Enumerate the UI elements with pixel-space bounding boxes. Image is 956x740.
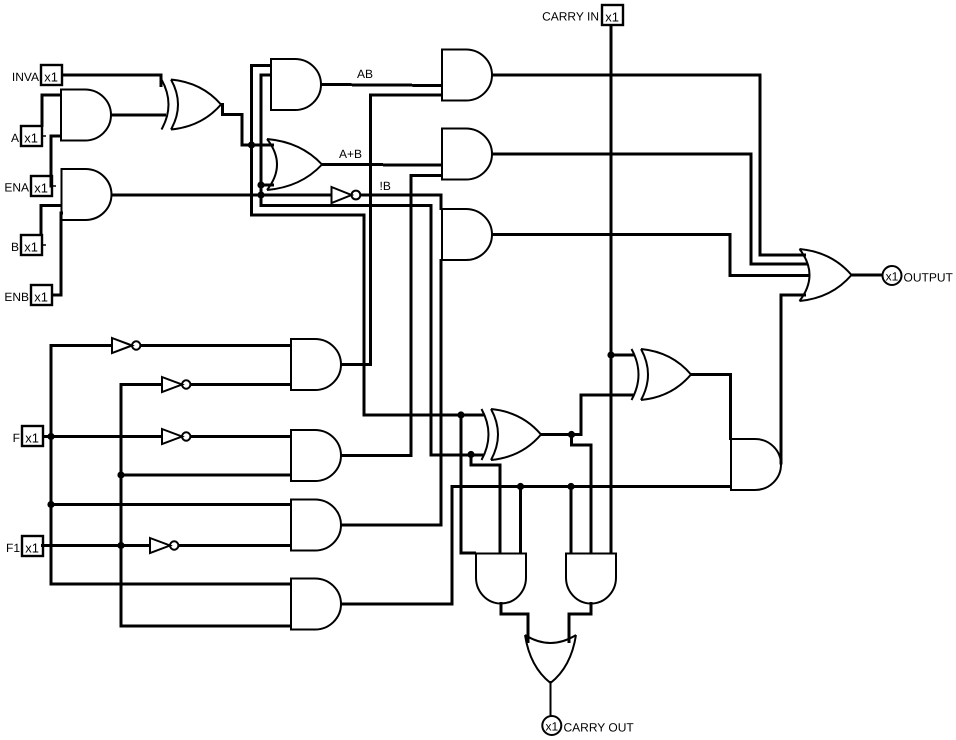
svg-text:CARRY OUT: CARRY OUT (564, 720, 635, 734)
wire INVA to XOR U3 upper input (62, 75, 161, 87)
svg-text:ENA: ENA (4, 181, 29, 195)
svg-text:x1: x1 (34, 290, 48, 305)
XOR gate U18 (A XOR B) (482, 409, 542, 460)
input box F1 (6, 536, 47, 556)
junction F.F1 row to AND U20 (517, 483, 524, 490)
svg-text:x1: x1 (605, 10, 619, 25)
wire branch down to AND U20 input 3 (519, 487, 522, 554)
output terminal CARRY OUT (542, 716, 634, 735)
svg-text:INVA: INVA (12, 70, 39, 84)
wire AND U7 output to OR U23 input 1 (492, 75, 806, 255)
svg-text:x1: x1 (25, 431, 39, 446)
wire IA bus down to AND U4 input 1 (252, 66, 486, 416)
XOR gate U3 (INVA XOR A.ENA) (162, 80, 222, 130)
wire AND U2 output to NOT U6 input (112, 194, 332, 197)
wire IB branch to OR U5 input 2 (261, 184, 274, 187)
svg-text:CARRY IN: CARRY IN (542, 10, 599, 24)
junction IB row to XOR U18 lower input (467, 451, 474, 458)
wire NOT U6 output !B to AND U9 input 1 (361, 195, 442, 210)
wire F1 bus vertical (121, 385, 291, 627)
NOT gate U11 (F1 inverter) (162, 377, 190, 392)
OR gate U5 (A+B) (267, 139, 322, 190)
wire AND U14 output up to AND U7 input 2 (341, 95, 442, 365)
svg-text:B: B (11, 240, 19, 254)
wire AND U16 output up to AND U9 input 2 (341, 259, 441, 525)
AND gate U2 (B AND ENB) (62, 169, 112, 220)
wire F bus vertical (51, 346, 291, 585)
wire IA branch down to AND U20 input 1 (461, 415, 476, 553)
wire IB bus to AND U4 input 2 and OR U5 (261, 75, 484, 455)
wire XOR U18 output to XOR U19 lower input (541, 395, 634, 435)
wire XOR U19 output to AND U22 input 1 (691, 375, 731, 441)
AND gate U4 (AB) (271, 59, 321, 110)
svg-text:A: A (11, 131, 19, 145)
input box B (11, 235, 46, 255)
wire AND U15 output up to AND U8 input 2 (341, 176, 442, 456)
wire NOT U13 output to AND U16 input 2 (179, 544, 292, 547)
wire F bus branch to AND U16 input 1 (51, 503, 291, 506)
output terminal OUTPUT (883, 266, 954, 285)
wire sum branch down to AND U21 input 2 (572, 435, 592, 554)
wire IB branch down to AND U20 input 2 (471, 455, 500, 554)
wire F1 bus branch to AND U15 input 2 (121, 474, 291, 477)
svg-text:x1: x1 (545, 719, 558, 733)
svg-text:F1: F1 (6, 541, 20, 555)
svg-text:!B: !B (380, 179, 391, 193)
wire XOR U3 output to node IA (221, 105, 274, 146)
wire NOT U12 output to AND U15 input 1 (191, 435, 292, 438)
svg-text:x1: x1 (34, 181, 48, 196)
junction F1 bus to AND U15 (117, 471, 124, 478)
svg-text:x1: x1 (24, 131, 38, 146)
AND gate U1 (A AND ENA) (61, 90, 111, 141)
wire F1 to NOT U13 input (41, 544, 150, 547)
AND gate U8 (A+B term) (442, 129, 492, 180)
AND gate U16 (function row 3) (291, 500, 341, 551)
AND gate U15 (function row 2) (291, 430, 341, 481)
svg-text:x1: x1 (44, 70, 58, 85)
NOT gate U13 (F1 inverter 2) (150, 538, 178, 553)
NOT gate U6 (!B) (332, 187, 361, 203)
NOT gate U10 (F inverter) (112, 338, 140, 353)
wire OR U5 output A+B to AND U8 input 1 (322, 163, 442, 167)
junction XOR U18 output to AND U21 (568, 431, 575, 438)
AND gate U17 (function row 4) (291, 579, 341, 630)
wire OR U24 output to CARRY OUT terminal (550, 681, 552, 716)
wire NOT U11 output to AND U14 input 2 (191, 383, 292, 386)
wire carry branch to XOR U19 upper input (611, 354, 634, 357)
junction F1 to bus (117, 542, 124, 549)
input box INVA (12, 65, 66, 85)
wire NOT U10 output to AND U14 input 1 (141, 344, 292, 347)
wire AND U17 output to AND U22 input 2 (341, 487, 731, 605)
junction F bus to AND U16 (47, 501, 54, 508)
junction IB on AND U2 output wire (257, 191, 264, 198)
input box A (11, 126, 46, 146)
wire AND U1 output to XOR U3 lower input (111, 114, 166, 117)
svg-text:ENB: ENB (4, 290, 29, 304)
wire branch down to AND U21 input 1 (570, 487, 573, 554)
wire AND U8 output to OR U23 input 2 (492, 154, 807, 264)
junction IB at OR U5 branch (257, 181, 264, 188)
input box CARRY IN (542, 5, 623, 25)
junction F to bus (47, 433, 54, 440)
svg-text:F: F (13, 431, 20, 445)
svg-text:OUTPUT: OUTPUT (904, 270, 954, 284)
OR gate U23 (output OR) (800, 249, 852, 301)
svg-text:x1: x1 (886, 269, 899, 283)
wire F to NOT U12 input (42, 435, 162, 438)
svg-text:x1: x1 (25, 541, 39, 556)
wire B to AND U2 input 1 (41, 206, 62, 237)
wire AND U20 output to OR U24 input 1 (501, 602, 528, 643)
wire AND U21 output to OR U24 input 2 (569, 602, 591, 643)
wire AND U9 output to OR U23 input 3 (492, 235, 809, 276)
wire CARRY IN down to AND U21 input 3 (610, 25, 613, 554)
wire AND U22 output up to OR U23 input 4 (781, 295, 806, 465)
AND gate U7 (top right AB.carry) (442, 50, 492, 101)
junction F.F1 row to AND U21 (567, 483, 574, 490)
AND gate U14 (function row 1) (291, 339, 341, 390)
AND gate U22 (output AND) (731, 439, 781, 490)
NOT gate U12 (F inverter 2) (162, 429, 190, 444)
AND gate U20 (carry term 1) (476, 554, 526, 604)
wire AND U4 output AB to AND U7 input 1 (321, 85, 442, 86)
wire OR U23 output to OUTPUT terminal (852, 274, 883, 277)
junction carry in to XOR U19 (607, 351, 614, 358)
input box ENB (4, 285, 56, 305)
AND gate U9 (!B term) (442, 209, 492, 260)
input box ENA (4, 176, 56, 196)
XOR gate U19 (sum XOR carry) (632, 349, 692, 400)
OR gate U24 (carry out OR) (525, 635, 576, 683)
wire ENB to AND U2 input 2 (51, 213, 63, 295)
wire ENA to AND U1 input 2 (51, 136, 61, 186)
AND gate U21 (carry term 2) (566, 554, 616, 604)
svg-text:x1: x1 (24, 240, 38, 255)
wire A to AND U1 input 1 (42, 95, 61, 127)
junction IA at OR U5 input row (248, 141, 255, 148)
svg-text:AB: AB (357, 67, 373, 81)
input box F (13, 426, 47, 446)
junction IA to carry AND row (457, 411, 464, 418)
svg-text:A+B: A+B (339, 147, 362, 161)
